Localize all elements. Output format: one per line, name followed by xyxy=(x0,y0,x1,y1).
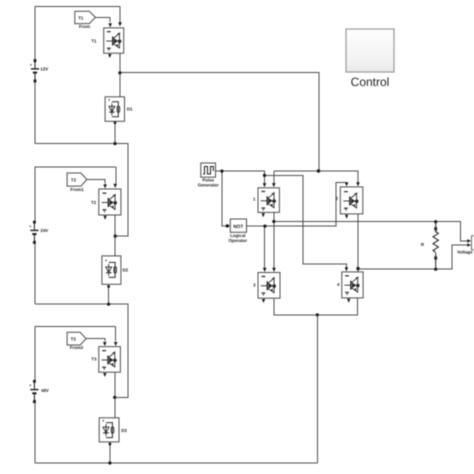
svg-text:+: + xyxy=(29,383,32,389)
svg-text:From2: From2 xyxy=(70,345,84,350)
svg-text:24V: 24V xyxy=(40,228,48,233)
svg-text:Control: Control xyxy=(351,75,390,89)
svg-text:12V: 12V xyxy=(40,66,48,71)
svg-text:T3: T3 xyxy=(71,337,77,342)
svg-text:+: + xyxy=(29,224,32,230)
svg-text:From1: From1 xyxy=(70,187,84,192)
svg-text:48V: 48V xyxy=(41,388,49,393)
svg-text:T2: T2 xyxy=(71,177,77,182)
svg-text:D1: D1 xyxy=(127,107,133,112)
svg-text:Operator: Operator xyxy=(229,238,248,243)
svg-text:From: From xyxy=(79,24,90,29)
svg-text:T1: T1 xyxy=(78,15,84,20)
svg-text:D2: D2 xyxy=(123,267,129,272)
svg-text:Generator: Generator xyxy=(198,182,219,187)
svg-text:D3: D3 xyxy=(121,428,127,433)
svg-text:T1: T1 xyxy=(91,38,97,43)
svg-text:T2: T2 xyxy=(91,200,97,205)
svg-text:T3: T3 xyxy=(91,357,97,362)
svg-text:Voltage Measurem: Voltage Measurem xyxy=(457,250,474,255)
svg-text:+: + xyxy=(30,63,33,69)
svg-text:NOT: NOT xyxy=(233,224,243,230)
